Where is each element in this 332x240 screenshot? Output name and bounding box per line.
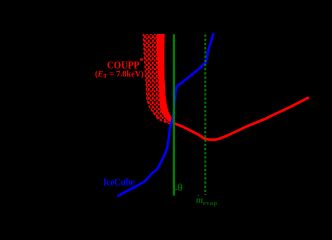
red limit curve (dip and rise) [175,98,309,140]
blue IceCube curve [118,34,213,196]
red hatch tick [140,58,143,60]
svg-text:IceCube: IceCube [103,177,135,188]
green dash above label [197,195,199,197]
svg-text:θ: θ [177,183,183,194]
COUPP band left dashed boundary [143,34,171,124]
green solid vertical line [173,34,175,195]
COUPP hatched exclusion band fill [143,34,174,124]
green dotted vertical line [204,35,206,196]
COUPP band right solid strip [157,34,175,124]
svg-text:(ET = 7.8keV): (ET = 7.8keV) [95,70,144,80]
green theta tick [175,189,178,191]
